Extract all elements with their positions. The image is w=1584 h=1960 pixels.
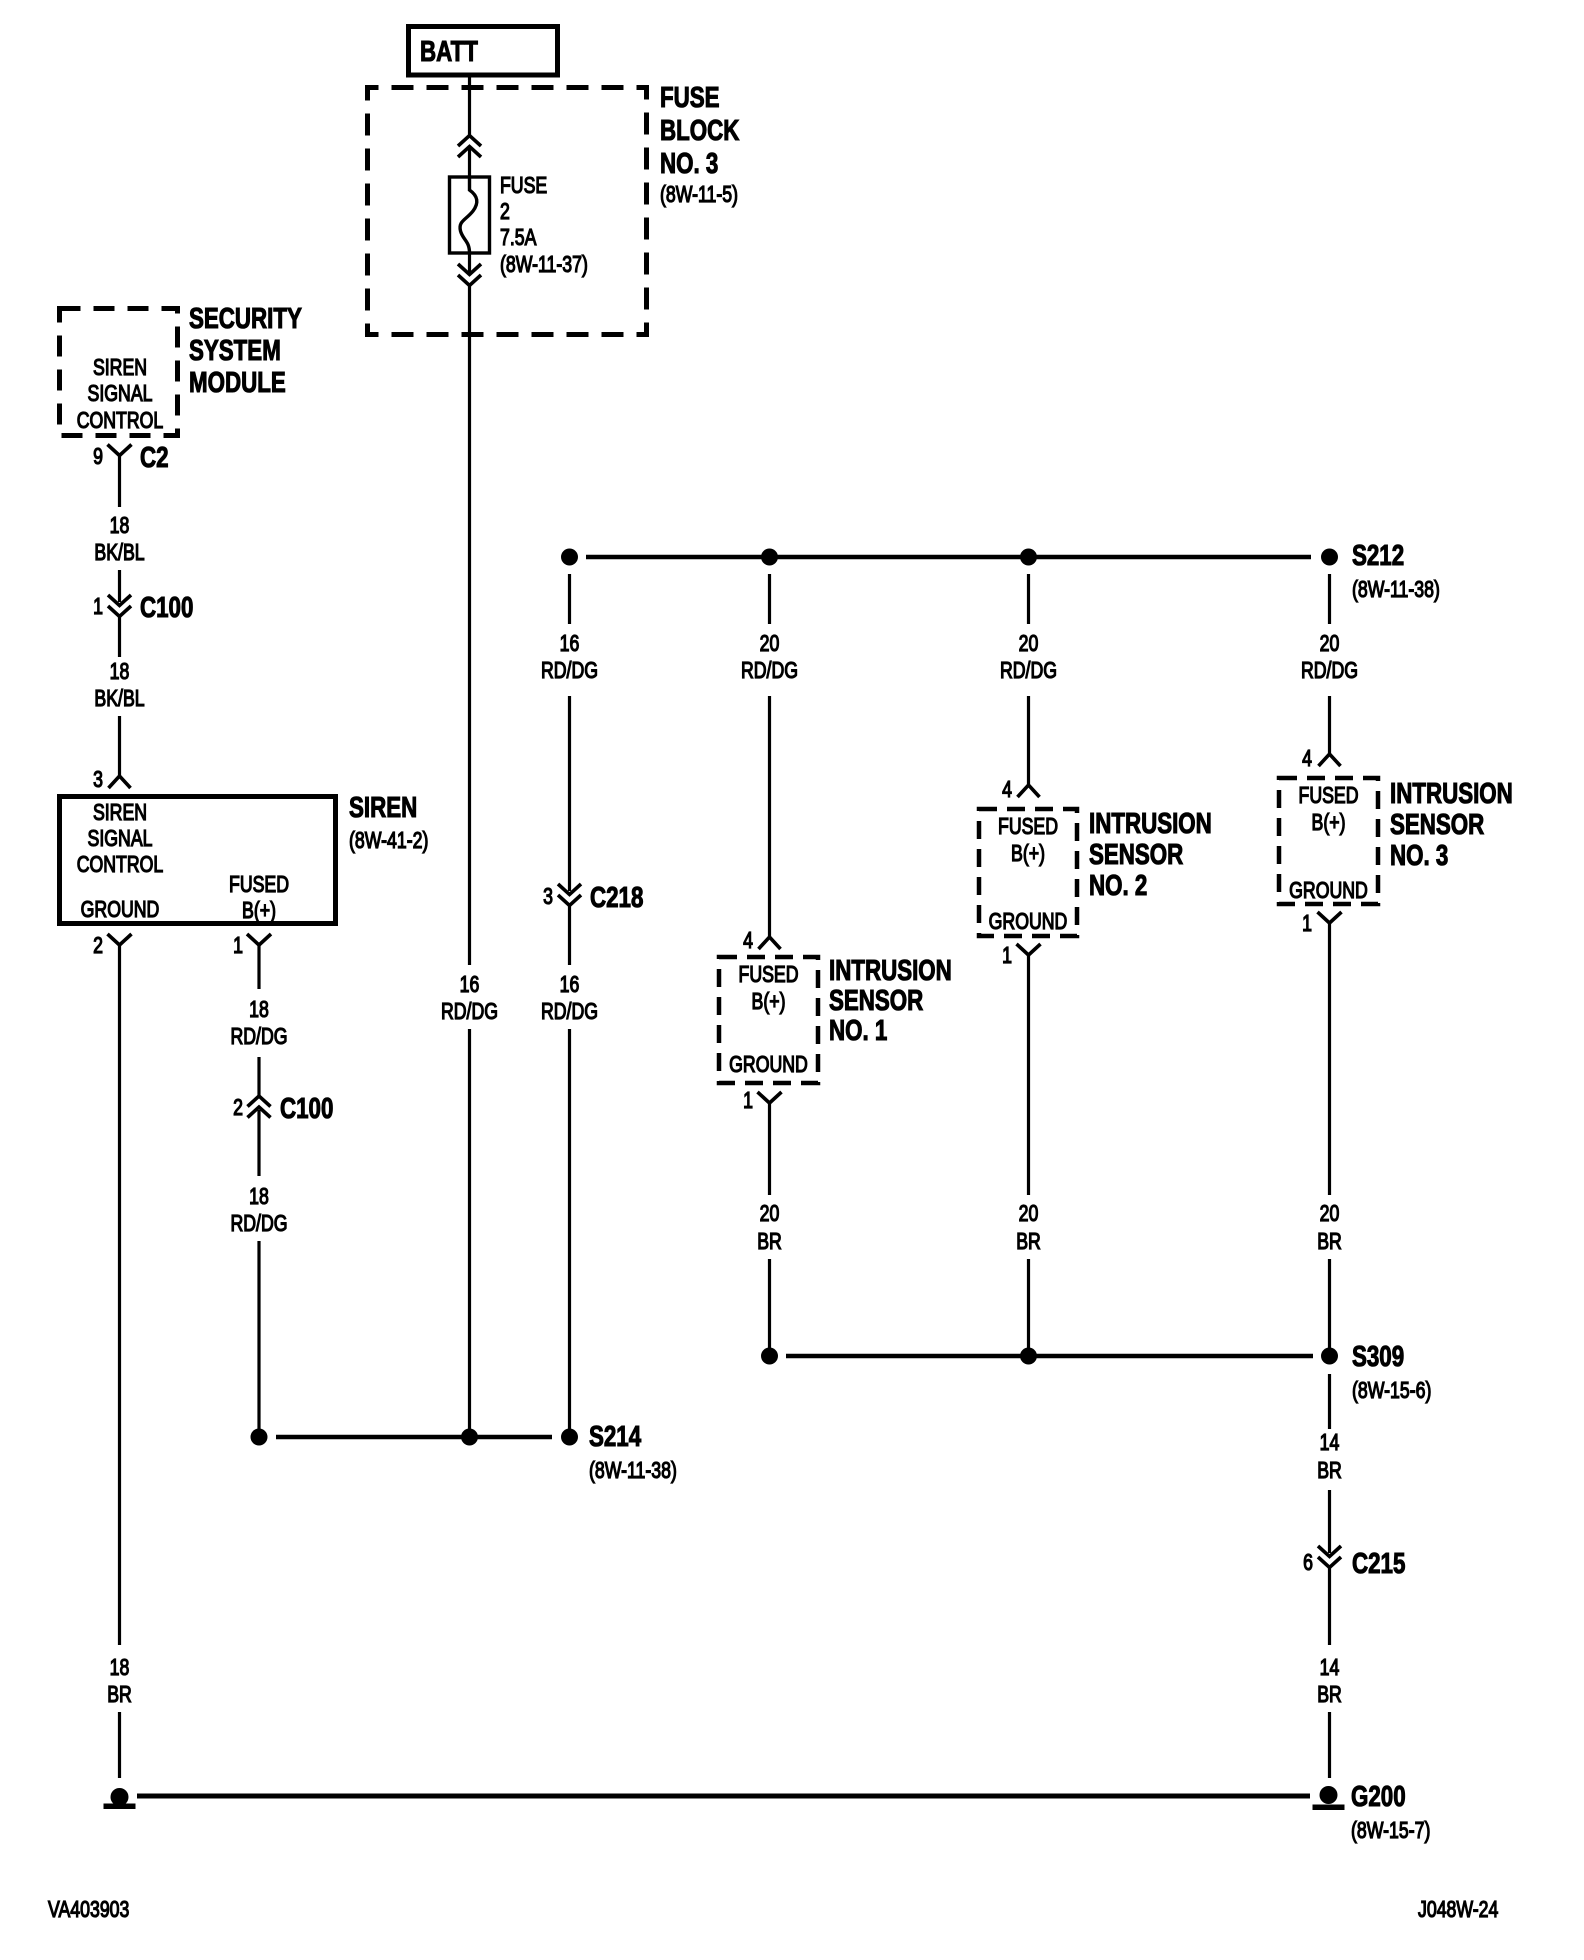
svg-text:FUSED: FUSED <box>739 962 799 988</box>
sensor 2 labels FUSED B(+) GROUND <box>989 814 1068 935</box>
fuse block no.3 dashed box <box>368 88 647 335</box>
wire down to C218 <box>568 696 571 891</box>
splice junction dot S309 b <box>1020 1348 1037 1365</box>
wire label 20 RD/DG <box>741 631 798 684</box>
svg-text:SECURITY: SECURITY <box>189 303 302 334</box>
svg-text:SENSOR: SENSOR <box>1390 809 1485 840</box>
splice junction dot S212 b <box>761 549 778 566</box>
svg-text:FUSE: FUSE <box>500 173 547 199</box>
sensor 3 pin 4 (half arrow into box) <box>1319 754 1341 766</box>
svg-text:MODULE: MODULE <box>189 367 286 398</box>
svg-text:NO. 3: NO. 3 <box>1390 840 1448 871</box>
wire label 18 BK/BL <box>94 513 144 566</box>
svg-text:2: 2 <box>500 199 510 225</box>
svg-text:C100: C100 <box>140 592 193 623</box>
svg-text:1: 1 <box>233 933 243 959</box>
svg-text:3: 3 <box>543 884 553 910</box>
svg-text:7.5A: 7.5A <box>500 225 537 251</box>
wire label 20 BR <box>1317 1201 1342 1255</box>
svg-text:G200: G200 <box>1351 1781 1406 1812</box>
svg-text:(8W-11-38): (8W-11-38) <box>1352 577 1440 603</box>
svg-text:18: 18 <box>249 997 269 1023</box>
svg-text:FUSE: FUSE <box>660 82 720 113</box>
svg-text:S214: S214 <box>589 1421 642 1452</box>
svg-text:14: 14 <box>1320 1430 1340 1456</box>
intrusion sensor no.3 dashed box <box>1279 778 1378 904</box>
wire 20 RD/DG S212 to sensor 3 upper <box>1328 574 1331 624</box>
wire label 20 RD/DG <box>1301 631 1358 684</box>
splice S309 bus <box>786 1354 1313 1359</box>
splice junction dot S214 left <box>251 1429 268 1446</box>
intrusion sensor no.1 dashed box <box>719 957 818 1083</box>
svg-text:3: 3 <box>93 767 103 793</box>
wire label 14 BR <box>1317 1430 1342 1484</box>
splice designator S309 (8W-15-6) <box>1352 1341 1431 1403</box>
svg-text:B(+): B(+) <box>752 989 786 1015</box>
splice S212 bus <box>586 555 1311 560</box>
battery feed box BATT <box>409 27 558 76</box>
svg-text:GROUND: GROUND <box>1289 878 1368 904</box>
connector out of fuse block (double chevron down) <box>458 264 481 286</box>
svg-text:1: 1 <box>743 1088 753 1114</box>
siren title SIREN (8W-41-2) <box>349 792 428 853</box>
wire down to splice S214 <box>257 1241 260 1437</box>
sensor 1 pin 1 (Y symbol) <box>758 1092 782 1103</box>
svg-text:RD/DG: RD/DG <box>741 658 798 684</box>
svg-text:2: 2 <box>233 1095 243 1121</box>
sensor 2 title INTRUSION SENSOR NO. 2 <box>1089 808 1212 901</box>
svg-text:BR: BR <box>1317 1682 1342 1708</box>
svg-text:SENSOR: SENSOR <box>1089 839 1184 870</box>
svg-text:BR: BR <box>757 1229 782 1255</box>
splice junction dot S212 a <box>561 549 578 566</box>
ground junction dot left <box>111 1788 129 1806</box>
svg-text:RD/DG: RD/DG <box>230 1211 287 1237</box>
svg-text:CONTROL: CONTROL <box>77 408 164 434</box>
svg-text:FUSED: FUSED <box>998 814 1058 840</box>
wire 20 RD/DG S212 to sensor 1 upper <box>768 574 771 624</box>
svg-text:FUSED: FUSED <box>1299 783 1359 809</box>
svg-text:14: 14 <box>1320 1655 1340 1681</box>
wire down to siren pin 3 <box>118 716 121 776</box>
wire down to splice S309 <box>768 1259 771 1356</box>
svg-text:GROUND: GROUND <box>81 897 160 923</box>
svg-text:(8W-15-7): (8W-15-7) <box>1351 1818 1430 1844</box>
svg-text:GROUND: GROUND <box>729 1052 808 1078</box>
ground designator G200 (8W-15-7) <box>1351 1781 1430 1843</box>
svg-text:6: 6 <box>1303 1550 1313 1576</box>
svg-text:BR: BR <box>1016 1229 1041 1255</box>
siren pin 3 (half arrow into box) <box>109 776 131 788</box>
svg-text:20: 20 <box>1019 1201 1039 1227</box>
siren pin 1 (Y symbol) <box>247 934 271 945</box>
svg-text:INTRUSION: INTRUSION <box>1089 808 1212 839</box>
intrusion sensor no.2 dashed box <box>979 809 1077 936</box>
fuse block title FUSE BLOCK NO. 3 (8W-11-5) <box>660 82 740 207</box>
wire 20 BR sensor 3 to S309 upper <box>1328 923 1331 1195</box>
svg-text:C215: C215 <box>1352 1548 1405 1579</box>
svg-text:SIGNAL: SIGNAL <box>88 826 153 852</box>
svg-text:INTRUSION: INTRUSION <box>829 955 952 986</box>
wire 16 RD/DG fuse output down to S214 (lower segment) <box>468 1029 471 1437</box>
svg-text:BR: BR <box>1317 1458 1342 1484</box>
wire down to sensor 2 pin 4 <box>1027 696 1030 785</box>
svg-text:FUSED: FUSED <box>229 872 289 898</box>
connector C100 pin 1 (double chevron down) <box>108 595 131 617</box>
ground bar under left dot <box>104 1804 136 1810</box>
siren signal control label inside module <box>77 355 164 434</box>
wire down to splice S309 <box>1328 1259 1331 1356</box>
wire 18 BR siren ground long run <box>118 945 121 1645</box>
wire label 14 BR <box>1317 1655 1342 1708</box>
svg-text:18: 18 <box>249 1184 269 1210</box>
svg-text:9: 9 <box>93 444 103 470</box>
svg-text:16: 16 <box>560 631 580 657</box>
svg-text:CONTROL: CONTROL <box>77 852 164 878</box>
svg-text:S309: S309 <box>1352 1341 1404 1372</box>
wire down to sensor 1 pin 4 <box>768 696 771 937</box>
svg-text:(8W-11-5): (8W-11-5) <box>660 182 738 208</box>
wire 18 BK/BL upper segment <box>118 456 121 508</box>
svg-text:16: 16 <box>460 972 480 998</box>
svg-text:SIREN: SIREN <box>93 355 147 381</box>
svg-text:C218: C218 <box>590 882 643 913</box>
wire down to C100 pin 2 <box>257 1057 260 1096</box>
wire below C100 <box>118 617 121 658</box>
wire label 18 BR <box>107 1655 132 1708</box>
svg-text:18: 18 <box>110 1655 130 1681</box>
svg-text:4: 4 <box>743 928 753 954</box>
splice junction dot S212 d <box>1321 549 1338 566</box>
svg-text:RD/DG: RD/DG <box>541 999 598 1025</box>
svg-text:20: 20 <box>1320 1201 1340 1227</box>
connector C100 pin 2 (double chevron up) <box>248 1096 271 1118</box>
svg-text:GROUND: GROUND <box>989 909 1068 935</box>
svg-text:RD/DG: RD/DG <box>541 658 598 684</box>
wire label 20 BR <box>757 1201 782 1255</box>
splice junction dot S309 c <box>1321 1348 1338 1365</box>
wire fuse to exit connector <box>468 253 471 272</box>
wire down to C215 <box>1328 1490 1331 1553</box>
svg-text:C100: C100 <box>280 1093 333 1124</box>
svg-text:18: 18 <box>110 659 130 685</box>
wire label 16 RD/DG <box>541 972 598 1025</box>
splice designator S212 (8W-11-38) <box>1352 540 1440 602</box>
sensor 1 pin 4 (half arrow into box) <box>759 937 781 949</box>
svg-text:B(+): B(+) <box>1312 810 1346 836</box>
wire down to splice S214 <box>568 1029 571 1437</box>
svg-text:SENSOR: SENSOR <box>829 985 924 1016</box>
svg-text:2: 2 <box>93 933 103 959</box>
siren box <box>60 797 336 924</box>
wire label 16 RD/DG <box>541 631 598 684</box>
svg-text:B(+): B(+) <box>242 898 276 924</box>
wire label 18 RD/DG <box>230 1184 287 1237</box>
svg-text:NO. 2: NO. 2 <box>1089 870 1147 901</box>
wire label 20 BR <box>1016 1201 1041 1255</box>
module title SECURITY SYSTEM MODULE <box>189 303 302 398</box>
wire down to C100 <box>118 570 121 602</box>
svg-text:18: 18 <box>110 513 130 539</box>
svg-text:SYSTEM: SYSTEM <box>189 335 281 366</box>
sensor 2 pin 4 (half arrow into box) <box>1018 785 1040 797</box>
svg-text:RD/DG: RD/DG <box>1000 658 1057 684</box>
svg-text:NO. 1: NO. 1 <box>829 1015 887 1046</box>
sensor 1 labels FUSED B(+) GROUND <box>729 962 808 1078</box>
wire 16 RD/DG S212 to C218 upper <box>568 574 571 624</box>
splice junction dot S309 a <box>761 1348 778 1365</box>
svg-text:B(+): B(+) <box>1011 841 1045 867</box>
svg-text:16: 16 <box>560 972 580 998</box>
svg-text:NO. 3: NO. 3 <box>660 148 718 179</box>
svg-text:S212: S212 <box>1352 540 1404 571</box>
connector into fuse block (double chevron up) <box>458 136 481 158</box>
svg-text:J048W-24: J048W-24 <box>1418 1897 1498 1923</box>
wire 20 RD/DG S212 to sensor 2 upper <box>1027 574 1030 624</box>
splice junction dot S214 middle <box>461 1429 478 1446</box>
svg-text:RD/DG: RD/DG <box>441 999 498 1025</box>
svg-text:20: 20 <box>1019 631 1039 657</box>
svg-text:BK/BL: BK/BL <box>94 686 144 712</box>
svg-text:C2: C2 <box>140 442 169 473</box>
wire 20 BR sensor 1 to S309 upper <box>768 1103 771 1195</box>
wire label 18 RD/DG <box>230 997 287 1050</box>
svg-text:BR: BR <box>1317 1229 1342 1255</box>
svg-text:20: 20 <box>1320 631 1340 657</box>
svg-text:(8W-11-38): (8W-11-38) <box>589 1458 677 1484</box>
wire connector to fuse <box>468 149 471 178</box>
connector C2 pin 9 (Y symbol) <box>108 445 132 456</box>
wire 14 BR S309 to C215 upper <box>1328 1374 1331 1429</box>
wire BATT to fuse block connector <box>468 77 471 136</box>
svg-text:1: 1 <box>1302 911 1312 937</box>
svg-text:20: 20 <box>760 631 780 657</box>
wire down to ground G200 <box>1328 1712 1331 1778</box>
svg-text:BLOCK: BLOCK <box>660 115 740 146</box>
ground G200 bus <box>137 1794 1310 1799</box>
wire to ground splice <box>118 1712 121 1778</box>
sensor 2 pin 1 (Y symbol) <box>1017 944 1041 955</box>
wire 16 RD/DG fuse output down to S214 (upper segment) <box>468 286 471 966</box>
fuse 2 7.5A element <box>450 177 490 253</box>
svg-text:RD/DG: RD/DG <box>1301 658 1358 684</box>
wire below C215 <box>1328 1568 1331 1646</box>
svg-text:(8W-11-37): (8W-11-37) <box>500 252 588 278</box>
svg-text:SIREN: SIREN <box>93 800 147 826</box>
svg-text:SIREN: SIREN <box>349 792 417 823</box>
wire 20 BR sensor 2 to S309 upper <box>1027 955 1030 1195</box>
connector C215 pin 6 (double chevron down) <box>1318 1546 1341 1568</box>
wire label 18 BK/BL <box>94 659 144 712</box>
svg-text:(8W-15-6): (8W-15-6) <box>1352 1378 1431 1404</box>
svg-text:20: 20 <box>760 1201 780 1227</box>
svg-text:(8W-41-2): (8W-41-2) <box>349 828 428 854</box>
ground junction dot right G200 <box>1320 1786 1338 1804</box>
splice junction dot S212 c <box>1020 549 1037 566</box>
svg-text:1: 1 <box>1002 943 1012 969</box>
svg-text:SIGNAL: SIGNAL <box>88 381 153 407</box>
wire 18 RD/DG from siren pin 1 <box>257 945 260 989</box>
svg-text:RD/DG: RD/DG <box>230 1024 287 1050</box>
wire down to splice S309 <box>1027 1259 1030 1356</box>
sensor 3 title INTRUSION SENSOR NO. 3 <box>1390 778 1513 871</box>
connector C218 pin 3 (double chevron down) <box>558 884 581 906</box>
svg-text:INTRUSION: INTRUSION <box>1390 778 1513 809</box>
fuse value label FUSE 2 7.5A (8W-11-37) <box>500 173 588 278</box>
splice S214 bus <box>276 1435 552 1440</box>
wire below C100 pin 2 <box>257 1110 260 1176</box>
svg-text:1: 1 <box>93 594 103 620</box>
wire down to sensor 3 pin 4 <box>1328 696 1331 754</box>
siren pin 2 (Y symbol) <box>108 934 132 945</box>
splice junction dot S214 right <box>561 1429 578 1446</box>
svg-text:VA403903: VA403903 <box>48 1897 129 1923</box>
wire label 16 RD/DG <box>441 972 498 1025</box>
siren box labels <box>77 800 289 924</box>
svg-text:4: 4 <box>1002 777 1012 803</box>
svg-text:BATT: BATT <box>420 36 478 67</box>
ground bar under right dot <box>1313 1805 1345 1811</box>
svg-text:4: 4 <box>1302 746 1312 772</box>
wire below C218 <box>568 906 571 966</box>
splice designator S214 (8W-11-38) <box>589 1421 677 1483</box>
sensor 1 title INTRUSION SENSOR NO. 1 <box>829 955 952 1046</box>
security system module dashed box <box>60 309 178 436</box>
sensor 3 pin 1 (Y symbol) <box>1318 912 1342 923</box>
wire label 20 RD/DG <box>1000 631 1057 684</box>
sensor 3 labels FUSED B(+) GROUND <box>1289 783 1368 904</box>
svg-text:BK/BL: BK/BL <box>94 540 144 566</box>
svg-text:BR: BR <box>107 1682 132 1708</box>
